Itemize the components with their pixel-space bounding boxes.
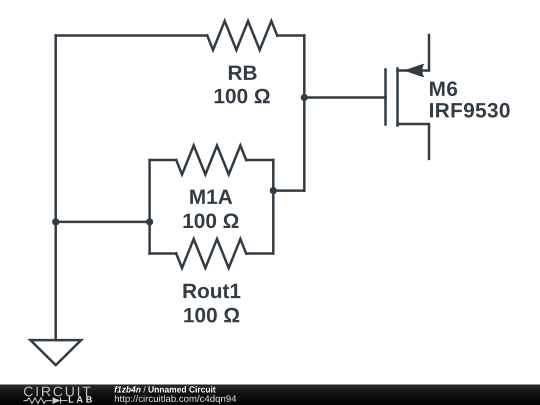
resistor M1A	[176, 146, 246, 175]
CircuitLab logo diode triangle	[53, 397, 61, 404]
ground	[30, 340, 81, 365]
wire left vertical	[54, 36, 57, 341]
transistor M6 gate bar	[384, 70, 387, 125]
wire RB right to corner	[277, 34, 304, 37]
transistor M6 drain lead bottom	[398, 124, 430, 159]
CircuitLab logo resistor zigzag wire	[24, 398, 53, 404]
resistor Rout1	[176, 239, 246, 268]
label M1A	[190, 190, 232, 204]
value label M1A 100 ohm	[184, 214, 239, 229]
node dot left branch on left vertical	[52, 218, 59, 225]
footer circuit title f1zb4n / Unnamed Circuit	[114, 386, 215, 393]
value label Rout1 100 ohm	[184, 308, 239, 323]
CircuitLab logo text LAB	[69, 396, 92, 402]
node dot loop right side	[270, 187, 277, 194]
wire loop top right segment	[246, 159, 273, 162]
footer url	[115, 395, 236, 404]
resistor RB	[207, 21, 277, 50]
wire parallel block right vertical	[272, 160, 275, 254]
transistor M6 channel bar	[396, 69, 399, 126]
node dot left branch on loop left side	[146, 218, 153, 225]
wire right vertical RB corner to loop node	[303, 36, 306, 191]
value label RB 100 ohm	[215, 89, 270, 104]
wire top horizontal	[56, 34, 208, 37]
CircuitLab logo diode wire	[61, 400, 68, 402]
wire loop bottom right segment	[246, 252, 273, 255]
wire loop top left segment	[150, 159, 177, 162]
CircuitLab logo text CIRCUIT	[24, 387, 91, 397]
transistor M6 source lead top	[398, 35, 430, 71]
label M6	[430, 81, 457, 96]
value label M6 IRF9530	[430, 103, 510, 118]
transistor M6 source arrow	[402, 64, 424, 78]
wire parallel block left lead	[56, 221, 150, 224]
wire parallel block left vertical	[148, 160, 151, 254]
node dot gate branch	[301, 94, 308, 101]
CircuitLab logo diode cathode bar	[60, 398, 62, 404]
wire loop bottom left segment	[150, 252, 177, 255]
label Rout1	[183, 284, 240, 299]
label RB	[229, 66, 257, 80]
wire gate branch horizontal	[304, 96, 385, 99]
wire node to parallel block right side	[273, 189, 304, 192]
footer watermark bar	[0, 384, 540, 405]
